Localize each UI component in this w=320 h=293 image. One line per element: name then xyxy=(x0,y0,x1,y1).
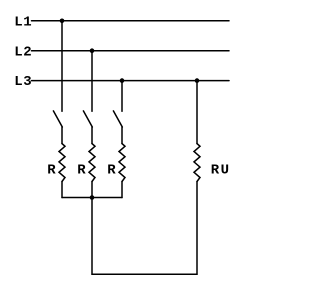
switch blade 1 xyxy=(53,111,62,127)
wire bottom return xyxy=(92,273,197,275)
wire bus down xyxy=(91,198,93,275)
node junction L3 xyxy=(120,78,125,83)
wire R3 to bus xyxy=(121,182,123,198)
svg-text:RU: RU xyxy=(211,162,231,178)
svg-text:L2: L2 xyxy=(14,44,32,60)
wire L3 to switch 3 xyxy=(121,81,123,112)
wire L3 xyxy=(32,80,230,82)
node junction L3-RU xyxy=(195,78,200,83)
wire L1 to switch 1 xyxy=(61,21,63,111)
wire switch 2 to R2 xyxy=(91,127,93,144)
resistor R1 xyxy=(59,144,65,182)
svg-text:L3: L3 xyxy=(14,74,32,90)
svg-text:R: R xyxy=(77,162,86,178)
switch blade 2 xyxy=(83,111,92,127)
svg-text:L1: L1 xyxy=(14,14,32,30)
switch blade 3 xyxy=(113,111,122,127)
wire L2 to switch 2 xyxy=(91,51,93,111)
wire RU bottom lead xyxy=(196,182,198,275)
resistor R3 xyxy=(119,144,125,182)
wire L1 xyxy=(32,20,230,22)
resistor RU xyxy=(194,144,200,182)
svg-text:R: R xyxy=(107,162,116,178)
wire switch 3 to R3 xyxy=(121,127,123,144)
wire L2 xyxy=(32,50,230,52)
resistor R2 xyxy=(89,144,95,182)
wire switch 1 to R1 xyxy=(61,127,63,144)
svg-text:R: R xyxy=(47,162,56,178)
node junction L1 xyxy=(60,19,65,24)
wire L3 to RU xyxy=(196,81,198,144)
wire R1 to bus xyxy=(61,182,63,198)
node junction L2 xyxy=(90,48,95,53)
node bus junction xyxy=(90,195,95,200)
wire R2 to bus xyxy=(91,182,93,198)
wire bottom bus xyxy=(62,197,122,199)
